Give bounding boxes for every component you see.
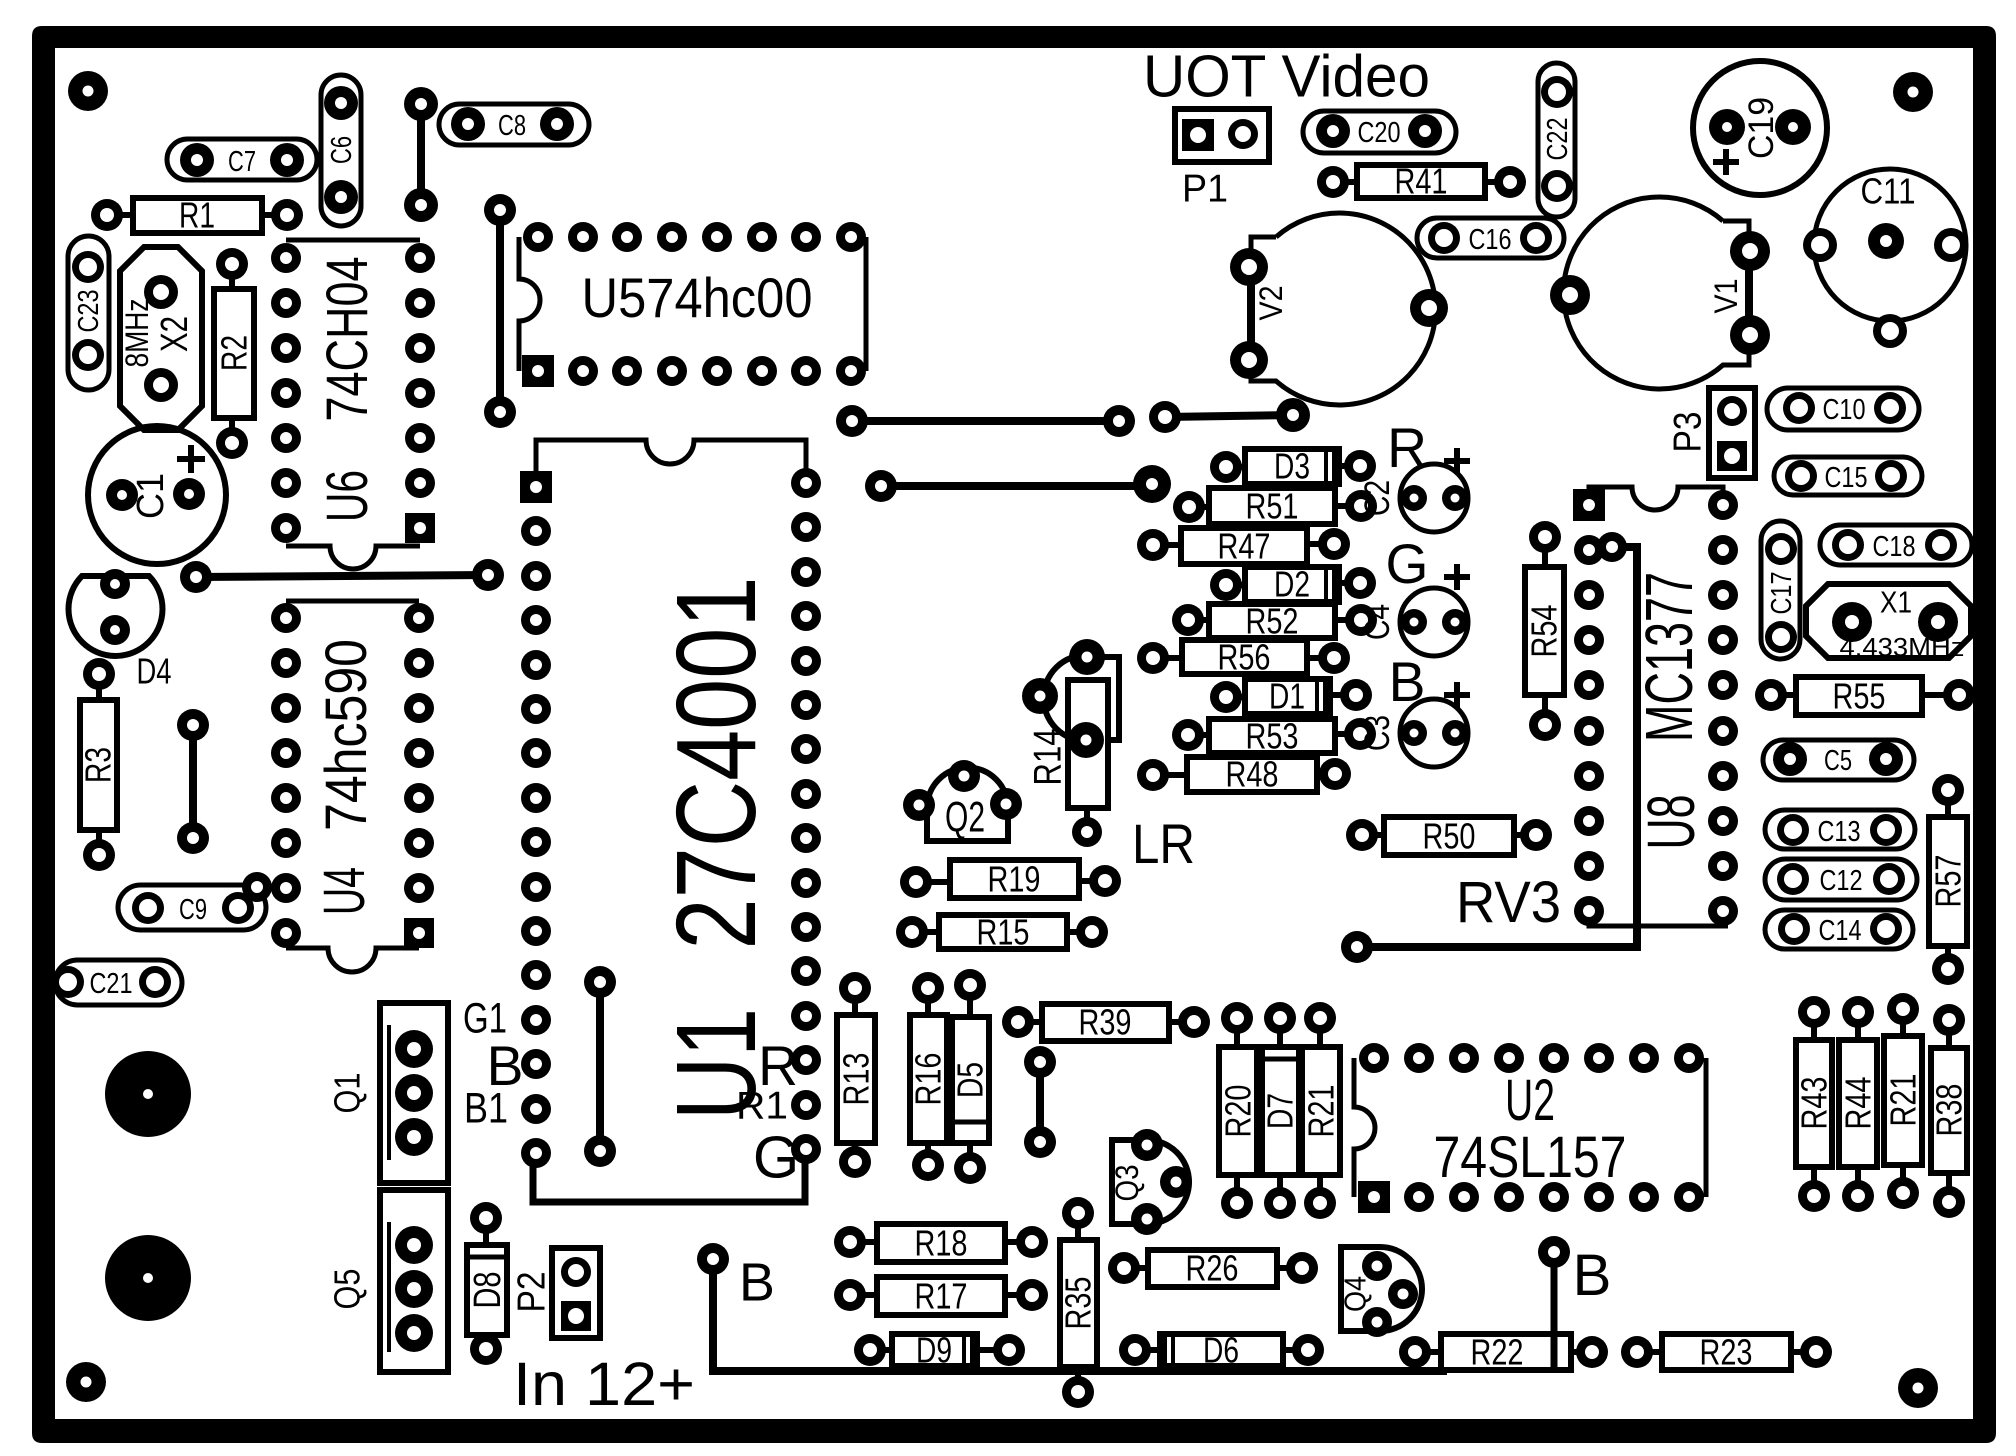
IC U5 74hc00	[519, 237, 540, 371]
svg-text:R1: R1	[736, 1085, 788, 1128]
svg-text:R18: R18	[915, 1223, 968, 1264]
wire R14 loop	[1086, 657, 1119, 740]
svg-text:R13: R13	[836, 1053, 877, 1106]
can C11	[1814, 169, 1966, 321]
fiducial top-left	[68, 71, 108, 111]
resistor R19	[916, 860, 1105, 898]
resistor R54	[1525, 537, 1564, 725]
svg-text:Q3: Q3	[1109, 1165, 1145, 1202]
svg-text:C7: C7	[228, 146, 256, 178]
svg-text:R23: R23	[1700, 1332, 1753, 1373]
svg-text:R15: R15	[977, 912, 1030, 953]
svg-text:R3: R3	[78, 747, 119, 783]
svg-text:C23: C23	[73, 290, 105, 333]
svg-text:74CH04: 74CH04	[315, 257, 380, 422]
resistor R3	[80, 674, 117, 855]
resistor R47	[1153, 528, 1334, 564]
svg-text:Q1: Q1	[327, 1073, 368, 1114]
svg-text:R35: R35	[1058, 1277, 1099, 1330]
svg-text:Q2: Q2	[945, 794, 985, 841]
svg-text:V1: V1	[1708, 279, 1744, 314]
wire R39-col	[1036, 1062, 1044, 1142]
pads wire U1 inner	[584, 966, 616, 998]
svg-text:C17: C17	[1766, 572, 1798, 615]
pads wire y421	[836, 405, 868, 437]
capacitor C9	[118, 885, 266, 930]
svg-text:8MHz: 8MHz	[119, 299, 155, 368]
svg-text:C20: C20	[1358, 117, 1401, 149]
capacitor C16	[1417, 218, 1564, 258]
svg-text:C11: C11	[1861, 171, 1916, 212]
connector Q5	[380, 1190, 448, 1372]
diode D4	[68, 576, 162, 656]
capacitor C12	[1765, 859, 1917, 900]
svg-text:C13: C13	[1818, 816, 1861, 848]
svg-text:R21: R21	[1301, 1085, 1342, 1138]
resistor R21	[1884, 1009, 1922, 1193]
svg-text:R21: R21	[1883, 1074, 1924, 1127]
svg-text:C10: C10	[1823, 394, 1866, 426]
wire D4-R3 col	[189, 725, 197, 838]
svg-text:R39: R39	[1079, 1002, 1132, 1043]
resistor R41	[1333, 165, 1510, 198]
diode D3	[1226, 449, 1360, 484]
svg-text:R52: R52	[1246, 601, 1299, 642]
svg-text:C18: C18	[1873, 531, 1916, 563]
IC U2 74SL157	[1354, 1058, 1375, 1197]
capacitor C5	[1763, 740, 1914, 780]
connector P2	[552, 1248, 600, 1338]
resistor R16	[910, 988, 947, 1165]
resistor R38	[1931, 1020, 1967, 1202]
capacitor C7	[167, 139, 317, 180]
svg-text:C2: C2	[1358, 480, 1397, 516]
svg-text:U574hc00: U574hc00	[582, 267, 813, 329]
resistor R50	[1362, 817, 1536, 855]
svg-text:C14: C14	[1819, 915, 1862, 947]
wire U1 inner	[596, 982, 604, 1151]
diode D8	[467, 1218, 507, 1349]
svg-text:RV3: RV3	[1456, 870, 1561, 935]
capacitor C17	[1761, 521, 1800, 659]
capacitor C20	[1303, 111, 1456, 153]
svg-text:D2: D2	[1274, 564, 1310, 605]
svg-text:R55: R55	[1833, 676, 1886, 717]
resistor R39	[1018, 1004, 1194, 1041]
fiducial bottom-left	[66, 1362, 106, 1402]
svg-text:C1: C1	[130, 473, 172, 519]
svg-text:C8: C8	[498, 110, 526, 142]
wire y486	[881, 482, 1150, 490]
transistor Q2	[927, 768, 1008, 842]
svg-text:R38: R38	[1929, 1084, 1970, 1137]
mounting hole 1	[105, 1051, 191, 1137]
svg-text:R48: R48	[1226, 754, 1279, 795]
svg-text:LR: LR	[1132, 813, 1195, 875]
diode D2	[1226, 567, 1360, 602]
pads wire y577	[180, 561, 212, 593]
svg-text:R2: R2	[214, 335, 255, 371]
svg-text:D3: D3	[1274, 446, 1310, 487]
capacitor C10	[1767, 388, 1919, 430]
svg-text:74hc590: 74hc590	[314, 639, 379, 831]
svg-text:C3: C3	[1358, 715, 1397, 751]
diode D6	[1135, 1334, 1308, 1366]
wire C6-col	[417, 104, 425, 205]
fiducial bottom-right	[1898, 1368, 1938, 1408]
resistor R56	[1153, 640, 1334, 674]
resistor R1	[107, 198, 287, 233]
can V2	[1251, 213, 1435, 405]
trimmer R14	[1043, 655, 1108, 832]
connector Q1	[380, 1003, 448, 1183]
wire B bus	[713, 1263, 1447, 1371]
svg-text:V2: V2	[1253, 286, 1289, 321]
IC U4 74hc590	[286, 599, 419, 604]
svg-text:C4: C4	[1358, 604, 1397, 640]
pads wire y417	[1149, 401, 1181, 433]
capacitor C22	[1538, 63, 1575, 217]
svg-text:C22: C22	[1542, 118, 1574, 161]
capacitor C6	[321, 75, 361, 226]
node B pad	[697, 1243, 729, 1275]
capacitor C21	[55, 960, 182, 1005]
crystal X1	[1806, 584, 1971, 658]
crystal X2	[120, 247, 202, 430]
svg-text:D5: D5	[950, 1062, 991, 1098]
resistor R13	[837, 988, 875, 1162]
diode D5	[952, 985, 989, 1168]
resistor R21	[1302, 1018, 1340, 1203]
svg-text:Q4: Q4	[1339, 1276, 1373, 1312]
pads wire U5-left	[484, 194, 516, 226]
svg-text:UOT Video: UOT Video	[1143, 43, 1430, 110]
svg-text:R20: R20	[1218, 1085, 1259, 1138]
diode D7	[1262, 1018, 1299, 1203]
svg-text:C19: C19	[1742, 97, 1781, 159]
svg-text:Q5: Q5	[327, 1269, 368, 1310]
fiducial top-right	[1893, 72, 1933, 112]
svg-text:R19: R19	[988, 859, 1041, 900]
svg-text:X2: X2	[154, 316, 196, 352]
capacitor C15	[1774, 457, 1922, 495]
capacitor C18	[1820, 525, 1972, 565]
svg-text:G: G	[753, 1124, 799, 1191]
wire RV3	[1357, 547, 1637, 947]
can V1	[1564, 197, 1749, 389]
resistor R2	[214, 264, 254, 443]
node B2 pad	[1538, 1236, 1570, 1268]
svg-text:4.433MHz: 4.433MHz	[1840, 632, 1965, 662]
connector P3	[1709, 388, 1755, 478]
wire y421	[852, 417, 1119, 425]
resistor R35	[1060, 1213, 1097, 1392]
svg-text:R43: R43	[1794, 1077, 1835, 1130]
svg-text:C15: C15	[1825, 462, 1868, 494]
connector P1	[1175, 109, 1269, 162]
svg-text:R44: R44	[1838, 1077, 1879, 1130]
capacitor C13	[1765, 810, 1915, 849]
svg-text:D4: D4	[137, 651, 172, 692]
capacitor C8	[439, 104, 589, 145]
svg-text:C6: C6	[326, 136, 358, 164]
diode D9	[870, 1334, 1009, 1366]
svg-text:U2: U2	[1505, 1068, 1555, 1133]
resistor R53	[1188, 719, 1360, 753]
svg-text:D9: D9	[916, 1330, 952, 1371]
svg-text:P2: P2	[511, 1272, 554, 1313]
resistor R48	[1153, 757, 1335, 792]
resistor R44	[1839, 1012, 1877, 1196]
svg-text:G: G	[1386, 533, 1429, 595]
resistor R17	[850, 1277, 1032, 1315]
svg-text:R16: R16	[908, 1053, 949, 1106]
svg-text:P3: P3	[1667, 412, 1710, 453]
svg-text:R22: R22	[1471, 1332, 1524, 1373]
svg-text:R1: R1	[179, 195, 215, 236]
resistor R52	[1188, 604, 1361, 638]
IC U6 74CH04	[286, 238, 420, 243]
svg-text:27C4001: 27C4001	[653, 577, 780, 950]
svg-text:In 12+: In 12+	[513, 1350, 695, 1418]
resistor R22	[1415, 1334, 1592, 1370]
svg-text:R26: R26	[1186, 1248, 1239, 1289]
svg-text:R51: R51	[1246, 486, 1299, 527]
resistor R20	[1219, 1018, 1257, 1203]
wire U1 bottom	[533, 1160, 805, 1202]
capacitor C23	[68, 236, 109, 390]
transistor Q4	[1341, 1247, 1422, 1331]
svg-text:D8: D8	[467, 1272, 509, 1309]
pads wire C6-col	[404, 87, 438, 121]
IC U1 27C4001	[536, 440, 806, 487]
svg-text:R14: R14	[1027, 729, 1070, 786]
svg-text:C5: C5	[1824, 745, 1852, 777]
pads wire R39-col	[1024, 1046, 1056, 1078]
svg-text:R54: R54	[1524, 605, 1565, 658]
resistor R26	[1124, 1250, 1302, 1287]
svg-text:C12: C12	[1820, 865, 1863, 897]
resistor R23	[1637, 1334, 1816, 1370]
transistor Q3	[1112, 1140, 1189, 1224]
svg-text:R: R	[1387, 417, 1427, 479]
svg-text:R47: R47	[1218, 526, 1271, 567]
capacitor C14	[1765, 910, 1913, 949]
resistor R43	[1796, 1012, 1832, 1196]
diode D1	[1226, 679, 1356, 714]
svg-text:R17: R17	[915, 1276, 968, 1317]
svg-text:D7: D7	[1260, 1093, 1301, 1129]
svg-text:B: B	[1389, 651, 1426, 713]
resistor R51	[1189, 488, 1361, 524]
G out circle	[1400, 588, 1468, 656]
R out circle	[1400, 464, 1468, 532]
wire B2 down	[1551, 1263, 1558, 1371]
wire y417	[1165, 415, 1293, 417]
resistor R57	[1929, 790, 1967, 969]
svg-text:D6: D6	[1203, 1330, 1239, 1371]
IC U8 MC1377	[1589, 487, 1723, 510]
svg-text:C21: C21	[90, 968, 133, 1000]
svg-text:C9: C9	[179, 894, 207, 926]
svg-text:R56: R56	[1218, 637, 1271, 678]
wire U5-left	[496, 210, 504, 412]
B out circle	[1400, 699, 1468, 767]
svg-text:U4: U4	[312, 867, 377, 915]
svg-text:X1: X1	[1880, 586, 1912, 620]
svg-text:P1: P1	[1182, 168, 1228, 211]
svg-text:R50: R50	[1423, 816, 1476, 857]
resistor R15	[912, 915, 1092, 949]
svg-text:B1: B1	[464, 1085, 508, 1132]
pads wire y486	[865, 470, 897, 502]
resistor R18	[850, 1224, 1032, 1262]
pads wire D4-R3 col	[177, 709, 209, 741]
svg-text:B: B	[739, 1253, 775, 1313]
svg-text:R57: R57	[1928, 855, 1969, 908]
capacitor C19	[1693, 61, 1827, 195]
svg-text:R53: R53	[1246, 716, 1299, 757]
wire y577	[196, 575, 488, 577]
svg-text:D1: D1	[1269, 676, 1305, 717]
svg-text:C16: C16	[1469, 224, 1512, 256]
capacitor C1	[88, 426, 226, 564]
svg-text:R41: R41	[1395, 161, 1448, 202]
RV3 wire pad	[1341, 931, 1373, 963]
svg-text:MC1377: MC1377	[1632, 572, 1707, 742]
mounting hole 2	[105, 1235, 191, 1321]
svg-text:B: B	[1573, 1243, 1612, 1308]
svg-text:U6: U6	[315, 470, 380, 522]
svg-text:U8: U8	[1634, 795, 1709, 850]
resistor R55	[1771, 677, 1959, 715]
svg-text:74SL157: 74SL157	[1434, 1125, 1627, 1190]
